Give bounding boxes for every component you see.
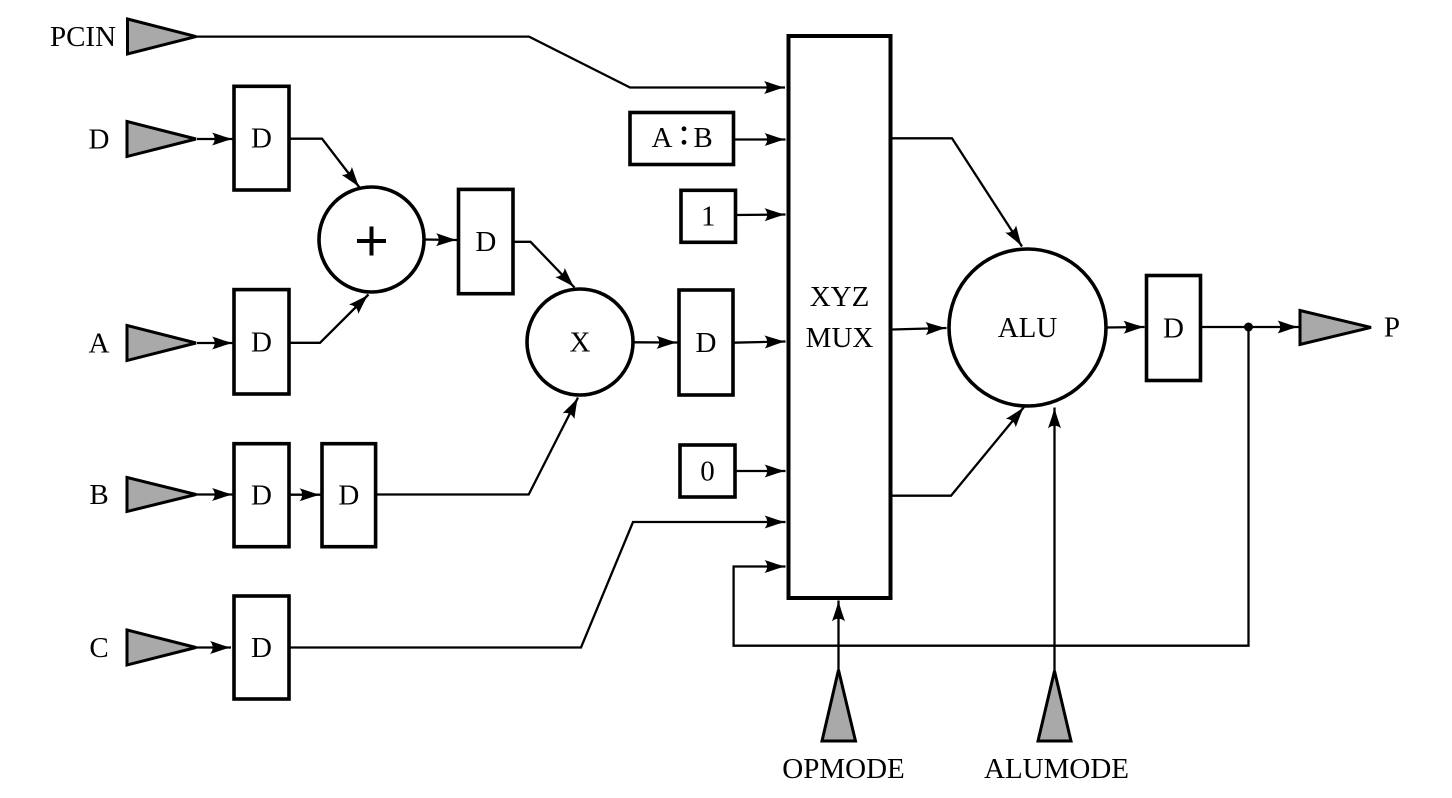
svg-text:0: 0 — [700, 456, 715, 488]
svg-text:D: D — [251, 632, 272, 664]
svg-text:PCIN: PCIN — [50, 21, 116, 53]
svg-text:C: C — [89, 632, 108, 664]
svg-text:D: D — [251, 123, 272, 155]
svg-text:A: A — [652, 122, 673, 154]
svg-text:1: 1 — [701, 201, 716, 233]
svg-text:D: D — [251, 480, 272, 512]
svg-text:A: A — [89, 328, 110, 360]
svg-text:D: D — [475, 226, 496, 258]
svg-text:ALUMODE: ALUMODE — [984, 753, 1129, 785]
svg-text:D: D — [251, 327, 272, 359]
svg-text:ALU: ALU — [998, 312, 1058, 344]
svg-text:B: B — [89, 479, 108, 511]
svg-text:X: X — [570, 327, 591, 359]
svg-text:D: D — [89, 124, 110, 156]
svg-text:OPMODE: OPMODE — [782, 753, 904, 785]
svg-text:MUX: MUX — [806, 322, 874, 354]
svg-text:D: D — [696, 327, 717, 359]
svg-text:B: B — [693, 122, 712, 154]
svg-text:D: D — [1163, 313, 1184, 345]
svg-text:P: P — [1384, 312, 1400, 344]
svg-text:XYZ: XYZ — [810, 281, 870, 313]
svg-text:D: D — [338, 480, 359, 512]
